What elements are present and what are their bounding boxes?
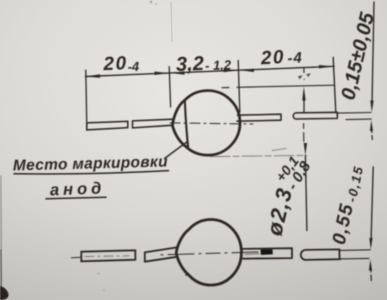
- second measure line of 0,15 dim: [346, 118, 371, 121]
- dia 2,3 dim: extension tail for text: [305, 156, 307, 231]
- diode body (bottom view): [176, 220, 241, 286]
- lead top edge extension to 0,55 dim: [340, 249, 371, 252]
- extension line E1: [86, 70, 87, 127]
- svg-text:20: 20: [259, 47, 285, 69]
- arrowhead left of 20-4 (second): [240, 69, 254, 72]
- arrowhead right of 3,2: [224, 69, 238, 72]
- leader to marking place: [165, 142, 188, 159]
- right lead segment 1 (bottom view): [243, 248, 292, 259]
- dimension text 3,2-1,2: [176, 52, 233, 76]
- 0,55 dim up arrow below: [369, 259, 372, 270]
- svg-text:-4: -4: [127, 59, 140, 74]
- label: Mesto markirovki: [13, 153, 169, 174]
- 0,15 dim up arrow below: [370, 120, 373, 131]
- diode body (top view): [172, 91, 240, 156]
- arrowhead right of 20-4 (second): [319, 65, 334, 68]
- body bottom tangent line (faint): [210, 155, 307, 156]
- pencil speck on body edge: [185, 273, 188, 276]
- axis centerline (top view): [170, 123, 253, 124]
- 0,55 dim vertical line with down arrow: [371, 167, 373, 243]
- dimension chain line (top): [86, 66, 335, 76]
- extension line E3: [238, 61, 240, 113]
- svg-text:- 1,2: - 1,2: [205, 57, 232, 73]
- right lead segment 1 (top view): [237, 114, 281, 121]
- tiny specks: [98, 1, 157, 291]
- svg-text:3,2: 3,2: [176, 53, 205, 76]
- 0,15 dim vertical line with lower arrow: [372, 2, 374, 104]
- marking band chord inside body: [185, 100, 188, 148]
- rotated label 0,55-0,15: [329, 163, 366, 247]
- dia 2,3 dim: lower arrow: [304, 143, 307, 155]
- scan artifact: left edge line: [0, 176, 2, 250]
- arrowhead right of 20-4 (first): [155, 72, 169, 76]
- svg-text:анод: анод: [50, 179, 106, 199]
- faint dash near dia text: [272, 149, 286, 151]
- underline of Mesto markirovki: [14, 171, 169, 174]
- rotated label dia 2,3 +0,1 -0,8: [259, 150, 317, 241]
- rotated label 0,15+-0,05: [337, 10, 379, 102]
- centerline dash inside lead (bottom view): [85, 255, 129, 258]
- dimension text 20-4 (left): [102, 53, 140, 75]
- faint scratch above E2: [171, 2, 172, 42]
- arrowhead left of 3,2: [170, 71, 184, 74]
- scan artifact: bottom-left dark corner: [0, 286, 9, 300]
- stray pencil squiggle marks: [298, 75, 303, 79]
- dia 2,3 dim: dash-dot through lead: [303, 124, 305, 142]
- underline of anod: [46, 197, 106, 199]
- left lead segment 1 (top view): [87, 121, 128, 130]
- cathode mark blob: [261, 249, 273, 255]
- extension line E4: [333, 58, 336, 113]
- axis centerline (bottom view): [161, 252, 264, 255]
- left lead segment 1 (bottom view): [81, 250, 135, 261]
- body top tangent line: [222, 85, 335, 88]
- dimension text 20-4 (right): [259, 46, 303, 70]
- right lead segment 2, broken pill (top view): [293, 112, 337, 119]
- lead top edge extension to 0,15 dim: [338, 112, 372, 115]
- centerline stub on dim line: [303, 68, 305, 72]
- label: anod: [50, 179, 106, 199]
- extension line E2: [169, 67, 170, 107]
- right lead segment 2, broken pill (bottom view): [301, 249, 340, 260]
- centerline dash in right lead (bottom view): [245, 253, 259, 256]
- lead bottom edge extension to 0,55 dim: [340, 257, 369, 260]
- svg-text:-4: -4: [287, 49, 303, 67]
- arrowhead left of 20-4 (first): [86, 74, 101, 78]
- dia 2,3 dim: upper arrow: [303, 97, 305, 112]
- left lead segment 2 (top view): [133, 119, 174, 128]
- left lead segment 2 (bottom view): [145, 247, 178, 261]
- centerline left tick (bottom view): [72, 256, 81, 258]
- svg-text:20: 20: [102, 53, 128, 75]
